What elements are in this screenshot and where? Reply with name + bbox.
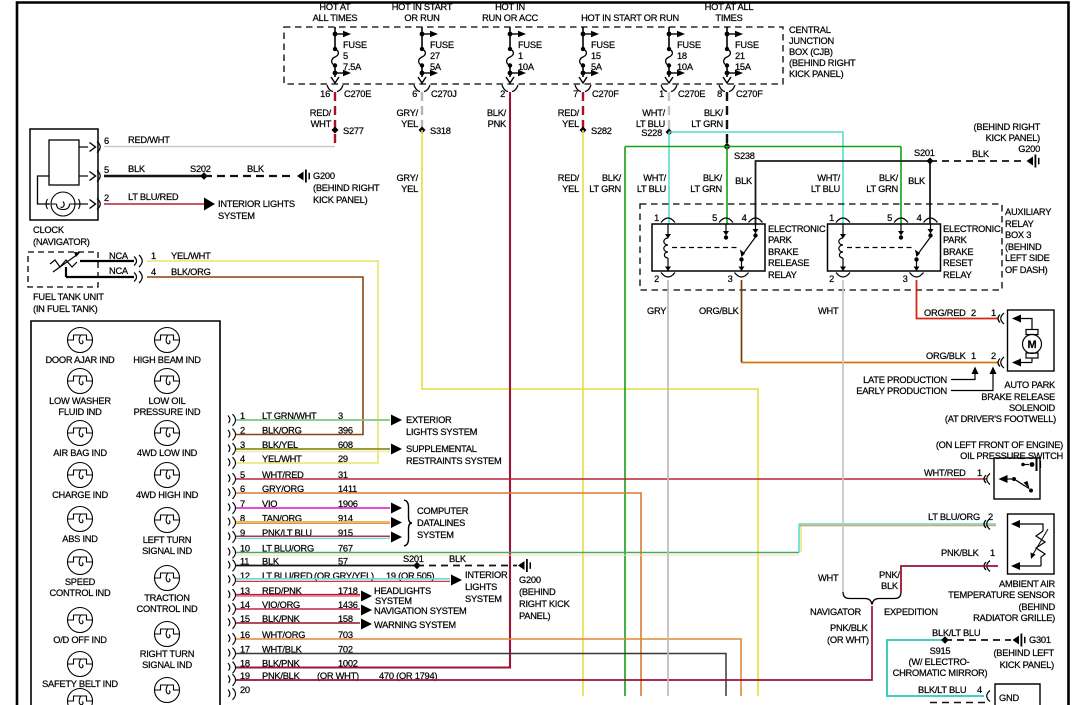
cluster connector pin 17 (WHT/BLK) xyxy=(228,645,353,660)
fuel tank sender (variable resistor) xyxy=(50,260,77,267)
ambient air temperature sensor box xyxy=(1008,514,1055,574)
ambient sensor pin 1 connector xyxy=(984,561,990,572)
wire RED/WHT dashed drop from fuse 5 xyxy=(334,92,336,146)
svg-text:10A: 10A xyxy=(518,62,535,72)
svg-text:PNK/: PNK/ xyxy=(879,570,900,580)
svg-text:FLUID IND: FLUID IND xyxy=(58,407,102,417)
splice S318 xyxy=(419,127,426,134)
wire RED/WHT (white segment) to clock pin 6 xyxy=(104,146,335,148)
indicator lamp: SAFETY BELT IND xyxy=(42,652,118,690)
indicator lamp: HIGH BEAM IND xyxy=(133,328,201,366)
svg-text:LT GRN: LT GRN xyxy=(691,119,723,129)
svg-text:S201: S201 xyxy=(914,148,935,158)
svg-text:18: 18 xyxy=(677,51,687,61)
oil pressure switch box xyxy=(994,458,1040,499)
svg-text:TRACTION: TRACTION xyxy=(144,593,190,603)
svg-text:15: 15 xyxy=(591,51,601,61)
svg-text:S238: S238 xyxy=(734,151,755,161)
svg-text:(AT DRIVER'S FOOTWELL): (AT DRIVER'S FOOTWELL) xyxy=(945,414,1056,424)
svg-text:4WD HIGH IND: 4WD HIGH IND xyxy=(136,490,199,500)
svg-text:KICK PANEL): KICK PANEL) xyxy=(986,133,1041,143)
cluster connector pin 10 (LT BLU/ORG) xyxy=(228,544,353,559)
svg-text:BLK/LT BLU: BLK/LT BLU xyxy=(932,628,980,638)
svg-text:BLK: BLK xyxy=(908,176,926,186)
svg-text:FUSE: FUSE xyxy=(735,40,759,50)
svg-text:5: 5 xyxy=(343,51,348,61)
clock pin 5 xyxy=(79,175,88,177)
wire pin13 RED/PNK to headlights xyxy=(236,594,360,596)
svg-text:5: 5 xyxy=(712,213,717,223)
svg-text:C270E: C270E xyxy=(678,89,705,99)
svg-text:RADIATOR GRILLE): RADIATOR GRILLE) xyxy=(973,613,1055,623)
svg-text:LIGHTS: LIGHTS xyxy=(465,582,497,592)
svg-text:S915: S915 xyxy=(930,646,951,656)
svg-text:SIGNAL IND: SIGNAL IND xyxy=(142,546,192,556)
svg-text:CENTRAL: CENTRAL xyxy=(789,25,831,35)
oil pressure switch pin 1 connector xyxy=(984,474,990,485)
cluster connector pin 20 xyxy=(228,685,250,700)
svg-text:RED/WHT: RED/WHT xyxy=(128,135,170,145)
wire GRY from release relay pin 2 to bottom xyxy=(667,280,669,696)
svg-text:3: 3 xyxy=(728,274,733,284)
ground G200 (clock) xyxy=(297,172,304,181)
svg-text:LEFT TURN: LEFT TURN xyxy=(143,535,192,545)
wire BLK dashed S201 to G200 (cluster) xyxy=(417,565,517,567)
svg-text:SYSTEM: SYSTEM xyxy=(218,211,255,221)
wire WHT/LT BLU cyan to relay pins 1 xyxy=(669,132,843,224)
indicator lamp: spare xyxy=(68,689,93,705)
wire pin15 BLK/PNK to warning xyxy=(236,622,360,624)
splice S202 xyxy=(200,172,208,180)
wire PNK/BLK sensor pin 1 to brace xyxy=(901,566,998,592)
svg-text:LT BLU/RED: LT BLU/RED xyxy=(128,192,179,202)
svg-text:8: 8 xyxy=(717,89,722,99)
partial dashed wire at bottom edge xyxy=(930,702,985,704)
wire pin16 WHT/ORG down to bottom xyxy=(236,639,741,696)
clock lamp symbol xyxy=(46,192,80,216)
svg-text:EXTERIOR: EXTERIOR xyxy=(406,415,452,425)
wire pin14 VIO/ORG to navigation xyxy=(236,608,360,610)
fuse 5 (7.5A) feed xyxy=(313,2,372,99)
svg-text:4: 4 xyxy=(151,267,156,277)
svg-text:G301: G301 xyxy=(1029,635,1051,645)
svg-text:C270E: C270E xyxy=(344,89,371,99)
svg-text:PNK/BLK: PNK/BLK xyxy=(830,623,869,633)
svg-text:BOX (CJB): BOX (CJB) xyxy=(789,47,833,57)
wire BLK/ORG fuel tank to cluster pin 2 xyxy=(147,277,363,435)
cluster connector pin 5 (WHT/RED) xyxy=(228,470,348,485)
splice S238 xyxy=(723,143,731,151)
svg-text:BLK/: BLK/ xyxy=(487,108,507,118)
svg-text:1: 1 xyxy=(151,251,156,261)
indicator lamp: O/D OFF IND xyxy=(53,608,107,646)
wire pin11 BLK to S201 xyxy=(236,565,417,567)
wire BLK/LT GRN dashed drop from fuse 21 xyxy=(726,92,728,147)
svg-text:S202: S202 xyxy=(190,164,211,174)
svg-text:27: 27 xyxy=(430,51,440,61)
indicator lamp: AIR BAG IND xyxy=(53,421,107,459)
svg-text:C270F: C270F xyxy=(592,89,619,99)
svg-text:C270J: C270J xyxy=(431,89,457,99)
svg-text:BLK: BLK xyxy=(247,164,265,174)
svg-text:CHROMATIC MIRROR): CHROMATIC MIRROR) xyxy=(893,668,988,678)
svg-text:10A: 10A xyxy=(677,62,694,72)
cluster connector pin 13 (RED/PNK) xyxy=(228,586,358,601)
svg-text:FUSE: FUSE xyxy=(677,40,701,50)
arrow to interior lights system xyxy=(204,198,215,211)
svg-text:RESET: RESET xyxy=(943,258,973,268)
wire RED/YEL dashed drop from fuse 15 xyxy=(582,92,584,130)
svg-text:S318: S318 xyxy=(430,126,451,136)
pin 19 variant labels xyxy=(317,671,437,681)
wire YEL/WHT fuel tank to cluster pin 4 xyxy=(147,261,378,463)
cluster connector pin 18 (BLK/PNK) xyxy=(228,659,358,674)
svg-text:WARNING SYSTEM: WARNING SYSTEM xyxy=(374,620,456,630)
svg-text:20: 20 xyxy=(240,685,250,695)
svg-text:1: 1 xyxy=(977,468,982,478)
wire BLK/LT BLU solid from S915 to GND xyxy=(887,640,984,696)
fuse 21 (15A) feed xyxy=(717,27,763,99)
svg-text:NCA: NCA xyxy=(109,266,129,276)
wire BLK clock pin 5 to S202 xyxy=(104,175,204,177)
wire WHT from reset relay pin 2 to brace xyxy=(842,280,844,592)
svg-text:(W/ ELECTRO-: (W/ ELECTRO- xyxy=(908,657,969,667)
splice S201 (cluster) xyxy=(413,562,421,570)
svg-text:OF DASH): OF DASH) xyxy=(1005,265,1048,275)
cluster connector pin 11 (BLK) xyxy=(228,557,348,572)
svg-text:6: 6 xyxy=(104,136,109,146)
svg-text:LT GRN: LT GRN xyxy=(690,184,722,194)
svg-text:SYSTEM: SYSTEM xyxy=(375,596,412,606)
splice S277 xyxy=(332,127,339,134)
svg-text:LT GRN: LT GRN xyxy=(589,184,621,194)
svg-text:1: 1 xyxy=(654,213,659,223)
svg-text:2: 2 xyxy=(971,308,976,318)
ground G200 (cluster) xyxy=(518,561,525,570)
svg-text:HOT IN START: HOT IN START xyxy=(392,2,453,12)
cluster connector pin 8 (TAN/ORG) xyxy=(228,514,353,529)
ground symbol inside oil pressure switch xyxy=(1030,462,1035,467)
svg-text:AUXILIARY: AUXILIARY xyxy=(1005,207,1051,217)
svg-text:WHT/: WHT/ xyxy=(643,173,666,183)
svg-text:EXPEDITION: EXPEDITION xyxy=(884,607,938,617)
svg-text:ABS IND: ABS IND xyxy=(62,534,98,544)
svg-text:3: 3 xyxy=(903,274,908,284)
svg-text:RIGHT TURN: RIGHT TURN xyxy=(140,649,195,659)
indicator lamp: LOW WASHER xyxy=(49,369,111,418)
svg-text:AMBIENT AIR: AMBIENT AIR xyxy=(999,579,1056,589)
indicator lamp: DOOR AJAR IND xyxy=(45,328,115,366)
indicator lamp: 4WD HIGH IND xyxy=(136,463,199,501)
wire pin12 LT BLU/RED to interior lights xyxy=(236,578,450,580)
svg-text:RIGHT KICK: RIGHT KICK xyxy=(519,599,571,609)
fuse 18 (10A) feed xyxy=(659,27,705,99)
svg-text:ORG/BLK: ORG/BLK xyxy=(926,351,967,361)
svg-text:OIL PRESSURE SWITCH: OIL PRESSURE SWITCH xyxy=(960,451,1063,461)
svg-text:RELAY: RELAY xyxy=(768,270,797,280)
CJB label text xyxy=(789,25,856,79)
svg-text:4: 4 xyxy=(977,685,982,695)
svg-text:CONTROL IND: CONTROL IND xyxy=(50,588,111,598)
wire RED/YEL yellow run S282 to bottom xyxy=(582,130,584,696)
svg-text:KICK PANEL): KICK PANEL) xyxy=(313,195,368,205)
svg-text:SYSTEM: SYSTEM xyxy=(417,530,454,540)
svg-text:1002: 1002 xyxy=(338,659,358,669)
svg-text:WHT/: WHT/ xyxy=(642,108,665,118)
svg-text:(BEHIND: (BEHIND xyxy=(1005,242,1042,252)
splice S228 xyxy=(666,129,673,136)
svg-text:O/D OFF IND: O/D OFF IND xyxy=(53,635,107,645)
svg-text:RED/: RED/ xyxy=(558,173,580,183)
svg-text:5A: 5A xyxy=(591,62,603,72)
indicator lamp: CHARGE IND xyxy=(52,463,108,501)
svg-text:18: 18 xyxy=(240,659,250,669)
svg-text:2: 2 xyxy=(991,351,996,361)
svg-text:BLK/ORG: BLK/ORG xyxy=(262,426,302,436)
svg-text:SPEED: SPEED xyxy=(65,577,96,587)
svg-text:15A: 15A xyxy=(735,62,752,72)
wire BLK dashed S201 to G200 xyxy=(930,160,1026,162)
wire pin19 PNK/BLK from expedition/navigator brace xyxy=(236,606,872,680)
svg-text:BLK/: BLK/ xyxy=(602,173,622,183)
clock pin 2 xyxy=(75,203,88,205)
cluster connector pin 4 (YEL/WHT) xyxy=(228,454,348,469)
svg-text:RELAY: RELAY xyxy=(943,270,972,280)
svg-text:COMPUTER: COMPUTER xyxy=(417,506,469,516)
svg-text:FUEL TANK UNIT: FUEL TANK UNIT xyxy=(33,292,104,302)
svg-text:WHT: WHT xyxy=(818,573,839,583)
svg-text:YEL: YEL xyxy=(401,184,418,194)
splice S915 xyxy=(941,636,949,644)
svg-text:GND: GND xyxy=(999,693,1019,703)
svg-text:BOX 3: BOX 3 xyxy=(1005,230,1031,240)
svg-text:HOT IN START OR RUN: HOT IN START OR RUN xyxy=(581,13,679,23)
svg-text:S277: S277 xyxy=(343,126,364,136)
svg-text:KICK PANEL): KICK PANEL) xyxy=(1000,660,1055,670)
svg-text:PANEL): PANEL) xyxy=(519,611,551,621)
svg-text:M: M xyxy=(1028,339,1037,351)
svg-text:PARK: PARK xyxy=(943,235,968,245)
svg-text:SOLENOID: SOLENOID xyxy=(1009,403,1056,413)
svg-text:ELECTRONIC: ELECTRONIC xyxy=(768,224,826,234)
cluster connector pin 9 (PNK/LT BLU) xyxy=(228,528,353,543)
svg-text:BLK/ORG: BLK/ORG xyxy=(171,267,211,277)
wire pin9 PNK/LT BLU to datalines xyxy=(236,535,390,537)
svg-text:5A: 5A xyxy=(430,62,442,72)
indicator lamp: RIGHT TURN xyxy=(140,622,195,671)
svg-text:SUPPLEMENTAL: SUPPLEMENTAL xyxy=(406,444,477,454)
wire GRY/YEL yellow run S318 to bottom xyxy=(422,130,758,696)
svg-text:6: 6 xyxy=(412,89,417,99)
wire GRY/YEL dashed drop from fuse 27 xyxy=(421,92,423,130)
svg-text:1: 1 xyxy=(518,51,523,61)
indicator lamp: ABS IND xyxy=(62,507,98,545)
wire pin6 GRY/ORG down to bottom xyxy=(236,493,641,696)
wire BLK/PNK from fuse 1 down to cluster pin 18 xyxy=(236,92,510,668)
solenoid pin 2 connector xyxy=(998,357,1004,368)
svg-text:S201: S201 xyxy=(403,554,424,564)
indicator lamp: 4WD LOW IND xyxy=(137,421,198,459)
fuse 1 (10A) feed xyxy=(482,2,542,99)
clock pin 6 xyxy=(79,146,88,148)
svg-text:DATALINES: DATALINES xyxy=(417,518,465,528)
svg-text:ALL TIMES: ALL TIMES xyxy=(313,13,358,23)
wire pin17 WHT/BLK down to bottom xyxy=(236,654,726,697)
svg-text:OR RUN: OR RUN xyxy=(404,13,439,23)
svg-text:RUN OR ACC: RUN OR ACC xyxy=(482,13,538,23)
cluster connector pin 15 (BLK/PNK) xyxy=(228,614,353,629)
svg-text:YEL: YEL xyxy=(401,119,418,129)
svg-text:NCA: NCA xyxy=(109,251,129,261)
svg-text:2: 2 xyxy=(829,274,834,284)
GND pin 4 connector xyxy=(987,691,990,702)
svg-text:BLK/LT BLU: BLK/LT BLU xyxy=(918,685,966,695)
svg-text:29: 29 xyxy=(338,454,348,464)
svg-text:396: 396 xyxy=(338,426,353,436)
svg-text:(BEHIND RIGHT: (BEHIND RIGHT xyxy=(789,58,856,68)
svg-text:1: 1 xyxy=(990,548,995,558)
wire BLK dashed S202 to G200 xyxy=(204,175,295,177)
wire BLK from relay pins 4 to S201 xyxy=(756,161,931,224)
svg-text:4: 4 xyxy=(240,454,245,464)
wire pin5 WHT/RED to oil pressure switch xyxy=(236,478,987,480)
svg-text:ORG/BLK: ORG/BLK xyxy=(699,306,740,316)
wire WHT/LT BLU dashed drop from fuse 18 xyxy=(668,92,670,132)
relay: electronic park brake release relay xyxy=(652,213,826,284)
svg-text:WHT: WHT xyxy=(311,119,332,129)
svg-text:(BEHIND RIGHT: (BEHIND RIGHT xyxy=(313,183,380,193)
svg-text:2: 2 xyxy=(500,89,505,99)
svg-text:HOT AT: HOT AT xyxy=(319,2,351,12)
wire pin10 LT BLU/ORG to ambient air temperature sensor xyxy=(236,552,799,554)
svg-text:(OR WHT): (OR WHT) xyxy=(827,635,869,645)
svg-text:CHARGE IND: CHARGE IND xyxy=(52,490,108,500)
cluster connector pin 19 (PNK/BLK) xyxy=(228,671,301,686)
svg-text:(BEHIND RIGHT: (BEHIND RIGHT xyxy=(974,122,1041,132)
svg-text:1: 1 xyxy=(991,308,996,318)
svg-text:RED/: RED/ xyxy=(310,108,332,118)
svg-text:GRY: GRY xyxy=(647,306,666,316)
svg-text:LATE PRODUCTION: LATE PRODUCTION xyxy=(863,375,947,385)
svg-text:RELAY: RELAY xyxy=(1005,219,1034,229)
svg-text:DOOR AJAR IND: DOOR AJAR IND xyxy=(45,355,115,365)
svg-text:BLK: BLK xyxy=(735,176,753,186)
svg-text:ORG/RED: ORG/RED xyxy=(924,308,966,318)
splice S201 (top) xyxy=(927,158,934,165)
wire pin8 TAN/ORG to datalines xyxy=(236,521,390,523)
svg-text:SIGNAL IND: SIGNAL IND xyxy=(142,660,192,670)
svg-text:KICK PANEL): KICK PANEL) xyxy=(789,69,844,79)
svg-text:4: 4 xyxy=(917,213,922,223)
svg-text:AUTO PARK: AUTO PARK xyxy=(1004,380,1056,390)
cluster connector pin 7 (VIO) xyxy=(228,499,358,514)
svg-text:ELECTRONIC: ELECTRONIC xyxy=(943,224,1001,234)
svg-text:4WD LOW IND: 4WD LOW IND xyxy=(137,448,198,458)
svg-text:PARK: PARK xyxy=(768,235,793,245)
svg-text:LOW OIL: LOW OIL xyxy=(149,396,186,406)
svg-text:C270F: C270F xyxy=(736,89,763,99)
svg-text:HIGH BEAM IND: HIGH BEAM IND xyxy=(133,355,201,365)
svg-text:WHT/: WHT/ xyxy=(817,173,840,183)
svg-text:BLK/PNK: BLK/PNK xyxy=(262,659,301,669)
svg-text:YEL/WHT: YEL/WHT xyxy=(262,454,302,464)
ambient sensor thermistor xyxy=(1011,520,1020,528)
svg-text:NAVIGATOR: NAVIGATOR xyxy=(810,607,861,617)
svg-text:BLK: BLK xyxy=(128,164,146,174)
svg-text:S282: S282 xyxy=(591,126,612,136)
auto park brake release solenoid box xyxy=(1008,310,1055,371)
pin 12 variant labels xyxy=(314,571,435,581)
svg-text:BLK/: BLK/ xyxy=(703,173,723,183)
svg-text:(NAVIGATOR): (NAVIGATOR) xyxy=(33,237,90,247)
clock internal link wire xyxy=(38,176,51,204)
svg-text:4: 4 xyxy=(742,213,747,223)
wire pin1 LT GRN/WHT to exterior lights xyxy=(236,419,390,421)
cluster connector pin 6 (GRY/ORG) xyxy=(228,484,357,499)
fuse 15 (5A) feed xyxy=(573,27,619,99)
cluster connector pin 12 (LT BLU/RED) xyxy=(228,571,313,586)
svg-text:LT BLU: LT BLU xyxy=(637,184,666,194)
svg-text:S228: S228 xyxy=(641,128,662,138)
svg-text:1: 1 xyxy=(659,89,664,99)
ambient sensor pin 2 connector xyxy=(984,519,990,530)
solenoid motor symbol xyxy=(1021,319,1042,363)
fuel tank connector arcs xyxy=(134,255,142,267)
cluster connector pin 14 (VIO/ORG) xyxy=(228,600,358,615)
svg-text:BLK: BLK xyxy=(449,554,467,564)
svg-text:HEADLIGHTS: HEADLIGHTS xyxy=(374,586,431,596)
svg-text:2: 2 xyxy=(104,193,109,203)
svg-text:SAFETY BELT IND: SAFETY BELT IND xyxy=(42,679,118,689)
cluster connector pin 16 (WHT/ORG) xyxy=(228,630,353,645)
svg-text:5: 5 xyxy=(104,165,109,175)
wire BLK/LT GRN green bus xyxy=(625,147,901,697)
svg-text:CLOCK: CLOCK xyxy=(33,225,65,235)
fuel tank unit dashed box xyxy=(28,252,98,287)
cluster connector pin 3 (BLK/YEL) xyxy=(228,440,353,455)
solenoid pin 1 connector xyxy=(998,313,1004,324)
oil pressure switch contacts xyxy=(999,475,1008,483)
wire BLK/LT BLU dashed S915 to G301 xyxy=(945,639,1011,641)
wire pin7 VIO to datalines xyxy=(236,507,390,509)
svg-text:RESTRAINTS SYSTEM: RESTRAINTS SYSTEM xyxy=(406,456,501,466)
svg-text:LEFT SIDE: LEFT SIDE xyxy=(1005,253,1050,263)
svg-text:BLK: BLK xyxy=(972,149,990,159)
computer datalines bracket xyxy=(404,500,412,546)
svg-text:(BEHIND: (BEHIND xyxy=(519,587,556,597)
svg-text:YEL: YEL xyxy=(562,119,579,129)
wire LT BLU/RED clock pin 2 to interior lights xyxy=(104,203,204,205)
svg-text:EARLY PRODUCTION: EARLY PRODUCTION xyxy=(856,386,947,396)
svg-text:(IN FUEL TANK): (IN FUEL TANK) xyxy=(33,304,98,314)
clock (navigator) box xyxy=(30,129,98,220)
svg-text:7: 7 xyxy=(573,89,578,99)
svg-text:INTERIOR: INTERIOR xyxy=(465,570,508,580)
svg-text:21: 21 xyxy=(735,51,745,61)
svg-text:FUSE: FUSE xyxy=(518,40,542,50)
svg-text:AIR BAG IND: AIR BAG IND xyxy=(53,448,107,458)
svg-text:5: 5 xyxy=(887,213,892,223)
svg-text:16: 16 xyxy=(320,89,330,99)
indicator lamp: LOW OIL xyxy=(134,369,201,418)
wire pin3 BLK/YEL to supplemental restraints xyxy=(236,448,390,450)
svg-text:WHT/RED: WHT/RED xyxy=(924,468,966,478)
central junction box (CJB) dashed enclosure xyxy=(284,27,783,84)
svg-text:BRAKE: BRAKE xyxy=(943,247,973,257)
svg-text:FUSE: FUSE xyxy=(430,40,454,50)
svg-text:G200: G200 xyxy=(1018,144,1040,154)
svg-text:PRESSURE IND: PRESSURE IND xyxy=(134,407,201,417)
